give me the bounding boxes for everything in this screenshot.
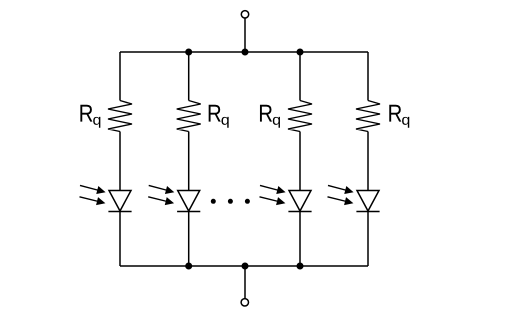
wire branch 2 upper segment [188, 52, 190, 101]
light arrows into photodiode D4 [328, 185, 354, 205]
light arrows into photodiode D3 [260, 185, 286, 205]
junction top rail / branch 3 [297, 49, 304, 56]
value label Rq for resistor Rq2 [209, 105, 229, 128]
wire branch 4 upper segment [367, 52, 369, 101]
wire branch 1 middle segment [119, 132, 121, 191]
resistor Rq3 [288, 101, 312, 132]
value label Rq for resistor Rq3 [260, 105, 280, 128]
terminal bottom (open circle) [241, 299, 248, 306]
value label Rq for resistor Rq4 [389, 105, 409, 128]
junction bottom rail / branch 3 [297, 263, 304, 270]
light arrows into photodiode D1 [80, 185, 106, 205]
wire to top terminal [244, 18, 246, 52]
photodiode D2 [177, 191, 200, 212]
wire branch 2 middle segment [188, 132, 190, 191]
resistor Rq1 [108, 101, 132, 132]
wire branch 4 lower segment [367, 212, 369, 267]
wire bottom rail [120, 265, 368, 267]
photodiode D1 [108, 191, 131, 212]
junction bottom rail / branch 2 [185, 263, 192, 270]
wire top rail [120, 51, 368, 53]
resistor Rq2 [177, 101, 201, 132]
light arrows into photodiode D2 [148, 185, 174, 205]
terminal top (open circle) [241, 11, 248, 18]
wire branch 4 middle segment [367, 132, 369, 191]
wire branch 3 upper segment [299, 52, 301, 101]
resistor Rq4 [356, 101, 380, 132]
junction top rail / branch 2 [185, 49, 192, 56]
wire branch 3 middle segment [299, 132, 301, 191]
junction bottom rail / terminal [242, 263, 249, 270]
wire to bottom terminal [244, 266, 246, 299]
photodiode D4 [356, 191, 379, 212]
wire branch 2 lower segment [188, 212, 190, 267]
wire branch 1 lower segment [119, 212, 121, 267]
ellipsis: additional parallel branches [211, 199, 250, 204]
value label Rq for resistor Rq1 [80, 105, 100, 128]
photodiode D3 [288, 191, 311, 212]
wire branch 3 lower segment [299, 212, 301, 267]
junction top rail / terminal [242, 49, 249, 56]
wire branch 1 upper segment [119, 52, 121, 101]
